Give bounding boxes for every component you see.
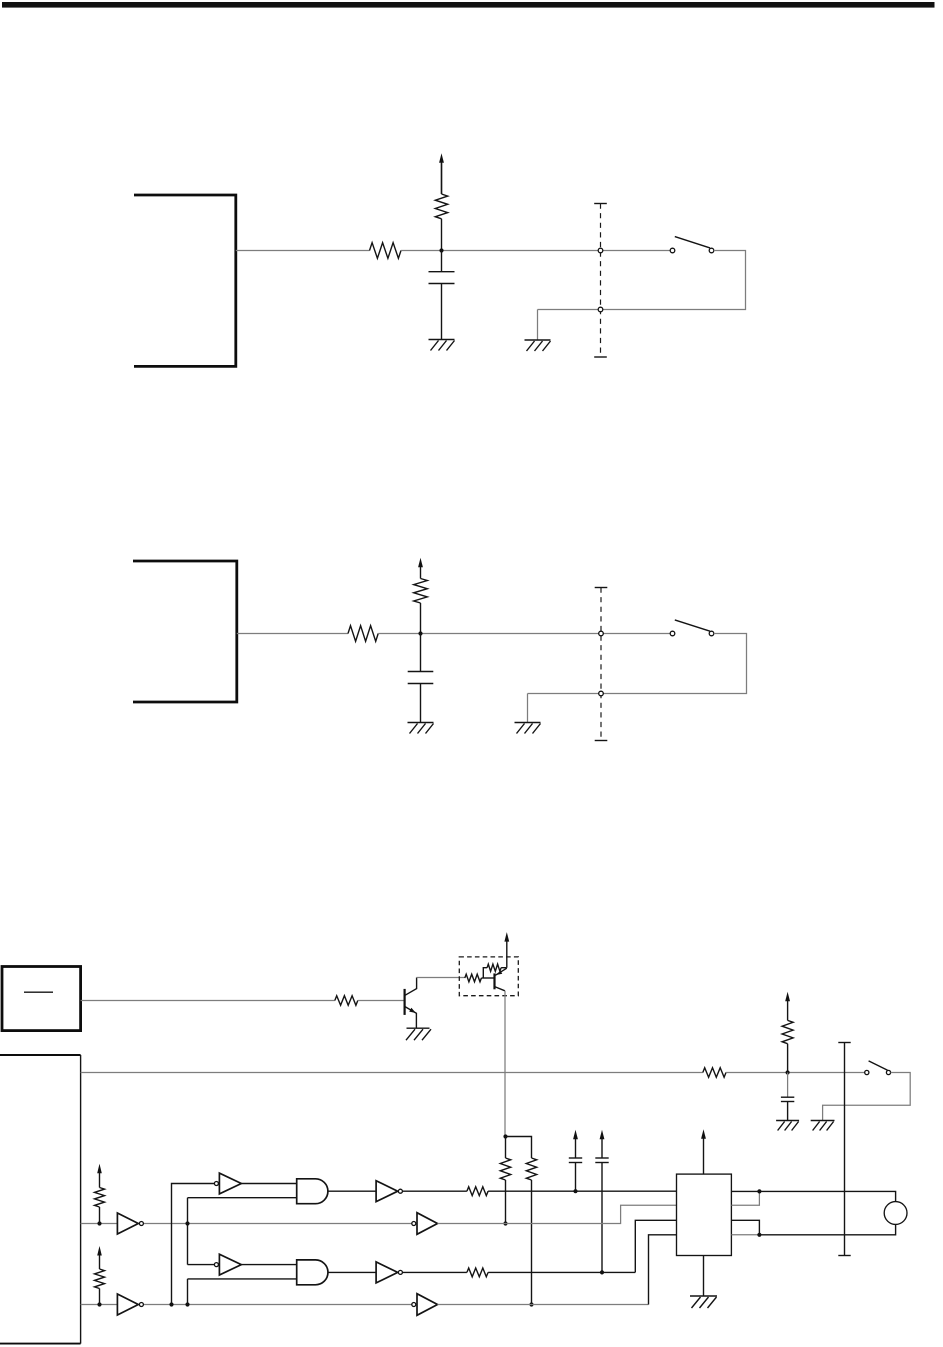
resistor R9 (pull-up) zigzag: [782, 1020, 793, 1043]
ground (below C2): [408, 722, 434, 724]
connector pin circle CN2-1: [599, 631, 604, 636]
ground (switch return, circuit 1): [525, 339, 551, 341]
wire U3A to inverter U4A: [328, 1190, 376, 1192]
sensor block (battery box): [2, 967, 81, 1031]
node D junction dot: [786, 1070, 790, 1074]
wire return to ground (circuit 2): [527, 694, 529, 723]
ground (driver IC): [690, 1295, 717, 1297]
IC block (top-left, circuit 1): [134, 195, 236, 366]
resistor R6 (Q2 base, inside dashed box): [465, 974, 482, 982]
power arrow VCC8 (cap C5): [601, 1138, 603, 1159]
inverter U1B (input B): [117, 1294, 138, 1315]
wire node D to capacitor C3: [787, 1073, 789, 1098]
node B junction dot: [418, 631, 422, 635]
wire U2B to AND U3B: [241, 1264, 296, 1266]
connector pin circle CN2-2: [599, 691, 604, 696]
wire driver to ground: [703, 1256, 705, 1297]
junction dot (out1): [757, 1189, 761, 1193]
switch SW1 throw circle: [709, 248, 714, 253]
inverter U6B (wire B, inverted input): [412, 1303, 416, 1307]
transistor Q2 (PNP) base bar: [493, 973, 495, 989]
power arrow VCC1: [441, 161, 443, 194]
wire R8 to node D: [726, 1072, 867, 1074]
connector pin circle CN1-2: [598, 307, 603, 312]
AND gate U3B: [297, 1260, 328, 1285]
wire node C branch: [506, 1137, 532, 1159]
junction dot (C4): [573, 1189, 577, 1193]
wire R3 to node B: [378, 633, 672, 635]
wire B to upper gate (vertical x=172): [172, 1184, 215, 1305]
motor driver IC U5: [677, 1174, 732, 1255]
wire R10 to input A: [99, 1207, 101, 1224]
inverter U6A (wire A, inverted input): [412, 1222, 416, 1226]
wire R6 to Q2 base: [481, 977, 493, 979]
resistor R7 (Q2 bias) tap: [483, 968, 487, 978]
capacitor C3: [781, 1096, 794, 1098]
wire Q1 collector to digital transistor: [417, 977, 465, 979]
wire C3 to ground: [787, 1102, 789, 1121]
power arrow VCC7 (cap C4): [575, 1138, 577, 1159]
resistor R1 (series): [370, 243, 402, 259]
transistor Q1 emitter: [405, 1007, 416, 1029]
board edge line (vertical, right): [838, 1042, 850, 1044]
wire C5 to pin-3 line: [601, 1163, 603, 1273]
wire B to lower AND (vertical x=187): [188, 1279, 297, 1305]
wire U3B to inverter U4B: [328, 1271, 376, 1273]
node B3 junction dot: [97, 1302, 101, 1306]
inverter U1A (input A): [117, 1213, 138, 1234]
wire out4 to motor: [759, 1224, 895, 1234]
switch SW3 pole circle: [865, 1070, 869, 1074]
wire U4A to resistor R12: [402, 1190, 467, 1192]
wire return to ground: [537, 310, 539, 341]
IC block (circuit 2): [133, 561, 237, 702]
junction dot (wire A, x=187): [185, 1221, 189, 1225]
wire battery box to resistor R5: [81, 1000, 335, 1002]
power arrow VCC2: [420, 566, 422, 579]
resistor R14 (pull-up to wire A): [505, 1137, 507, 1159]
wire R11 to input B: [99, 1289, 101, 1305]
wire R12 to driver IC pin 1: [488, 1190, 676, 1192]
resistor R2 (pull-up) top shaft: [441, 163, 443, 194]
wire controller to input A: [81, 1223, 412, 1225]
wire C2 to ground: [420, 684, 422, 723]
resistor R3 (series): [348, 626, 378, 642]
wire SW1 to return: [538, 251, 746, 310]
resistor R2 (pull-up) zigzag: [435, 194, 447, 219]
dashed box (digital transistor Q2): [459, 957, 518, 996]
wire U4B to resistor R13: [402, 1271, 467, 1273]
junction dot (out4): [757, 1233, 761, 1237]
switch SW2 throw circle: [709, 631, 714, 636]
battery box internal line: [24, 991, 53, 993]
wire C4 to pin-1 line: [575, 1163, 577, 1192]
ground (Q1 emitter): [407, 1027, 430, 1029]
wire node B to capacitor C2: [420, 634, 422, 672]
switch SW3 lever: [869, 1061, 888, 1070]
resistor R4 (pull-up) zigzag: [414, 579, 428, 604]
node A junction dot: [439, 248, 443, 252]
junction dot (wire B, x=172): [169, 1302, 173, 1306]
capacitor C4: [569, 1157, 582, 1159]
wire U2A to AND U3A: [241, 1183, 296, 1185]
wire IC to resistor R3: [237, 633, 348, 635]
capacitor C5: [595, 1157, 608, 1159]
power arrow VCC9 (driver): [703, 1137, 705, 1174]
ground (below C3): [776, 1120, 799, 1122]
power arrow VCC4: [787, 1000, 789, 1021]
switch SW2 lever: [675, 620, 710, 631]
wire R5 to Q1 base: [358, 1000, 404, 1002]
wire driver pin out1: [731, 1190, 759, 1192]
transistor Q1 collector: [405, 978, 417, 996]
junction dot (wire B, x=187): [185, 1302, 189, 1306]
resistor R15 (pull-up to wire B): [526, 1158, 536, 1180]
switch SW2 pole circle: [670, 631, 675, 636]
resistor R10 (input A pull-up): [95, 1188, 105, 1208]
wire out1 to motor: [759, 1191, 895, 1201]
resistor R7 (Q2 bias) zigzag: [487, 964, 501, 971]
wire R9 to node D: [787, 1044, 789, 1073]
wire R15 to wire B: [531, 1180, 533, 1305]
junction dot (R15 on wire B): [529, 1302, 533, 1306]
wire node A to capacitor C1: [441, 251, 443, 272]
transistor Q2 collector: [495, 987, 505, 991]
junction dot (R14 on wire A): [503, 1221, 507, 1225]
wire C1 to ground: [441, 284, 443, 340]
wire driver pin out2 (joins out1): [731, 1191, 759, 1205]
motor M1: [884, 1202, 907, 1225]
wire R7 to Q2 emitter node: [501, 967, 507, 969]
wire jog into driver pin 3: [635, 1220, 676, 1272]
resistor R12: [467, 1187, 488, 1196]
wire R4 to node B: [420, 603, 422, 634]
controller block (bottom-left): [0, 1054, 81, 1056]
wire B jog into driver pin 4: [438, 1304, 649, 1306]
node C junction dot: [503, 1134, 507, 1138]
wire controller to input B: [81, 1304, 412, 1306]
capacitor C2: [408, 671, 434, 673]
inverter U4A: [376, 1181, 398, 1202]
wire R1 to node A: [401, 250, 672, 252]
power arrow VCC3 (Q2 emitter): [506, 940, 508, 968]
power arrow VCC6 (input B pull-up): [99, 1254, 101, 1269]
switch SW1 pole circle: [670, 248, 675, 253]
buffer U2A (inverted input): [214, 1182, 218, 1186]
ground (below C1): [429, 339, 455, 341]
page top rule: [2, 2, 935, 8]
wire driver pin out4: [731, 1234, 759, 1236]
transistor Q2 emitter: [495, 968, 507, 975]
wire R2 to node A: [441, 219, 443, 251]
wire SW2 to return: [528, 634, 747, 694]
wire Q2 collector down to node C: [504, 991, 506, 1137]
wire A to upper AND / lower buffer (vertical x=187): [188, 1198, 297, 1265]
AND gate U3A: [297, 1179, 328, 1204]
wire from IC pin to resistor R1: [236, 250, 370, 252]
switch SW1 lever: [675, 237, 710, 248]
node A3 junction dot: [97, 1221, 101, 1225]
wire R13 to jog: [488, 1271, 635, 1273]
junction dot (C5): [600, 1270, 604, 1274]
wire R14 to wire A: [505, 1180, 507, 1224]
wire A jog into driver pin 2: [438, 1205, 677, 1223]
wire driver pin out3 (joins out4): [731, 1220, 759, 1235]
buffer U2B (inverted input): [214, 1263, 218, 1267]
connector dashed line CN2: [595, 587, 608, 589]
ground (switch return, circuit 2): [515, 722, 541, 724]
wire SW3 return: [823, 1073, 911, 1121]
resistor R8 (series, motor enable): [703, 1068, 726, 1078]
connector pin circle CN1-1: [598, 248, 603, 253]
inverter U4B: [376, 1262, 398, 1283]
resistor R5 (base resistor Q1): [335, 996, 358, 1006]
capacitor C1: [429, 271, 455, 273]
resistor R13: [467, 1268, 488, 1277]
power arrow VCC5 (input A pull-up): [99, 1172, 101, 1188]
ground (SW3 return): [811, 1120, 835, 1122]
wire controller to resistor R8 (motor line): [81, 1072, 703, 1074]
connector dashed line CN1: [594, 203, 607, 205]
switch SW3 throw circle: [886, 1070, 890, 1074]
transistor Q1 (NPN) base bar: [404, 989, 406, 1015]
resistor R11 (input B pull-up): [95, 1269, 105, 1289]
